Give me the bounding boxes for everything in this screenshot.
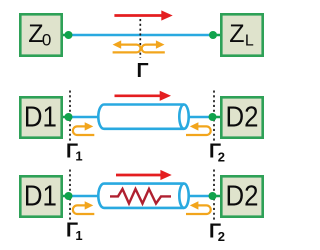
svg-text:L: L <box>245 32 254 49</box>
svg-text:D1: D1 <box>24 102 57 134</box>
svg-text:1: 1 <box>75 148 82 163</box>
svg-text:D1: D1 <box>24 181 57 213</box>
svg-text:D2: D2 <box>226 181 259 213</box>
svg-text:2: 2 <box>218 229 225 244</box>
svg-text:1: 1 <box>75 228 82 243</box>
svg-text:Z: Z <box>229 20 244 48</box>
svg-text:0: 0 <box>42 30 51 49</box>
svg-text:2: 2 <box>218 149 225 164</box>
svg-text:Γ: Γ <box>137 60 149 82</box>
svg-text:D2: D2 <box>226 102 259 134</box>
